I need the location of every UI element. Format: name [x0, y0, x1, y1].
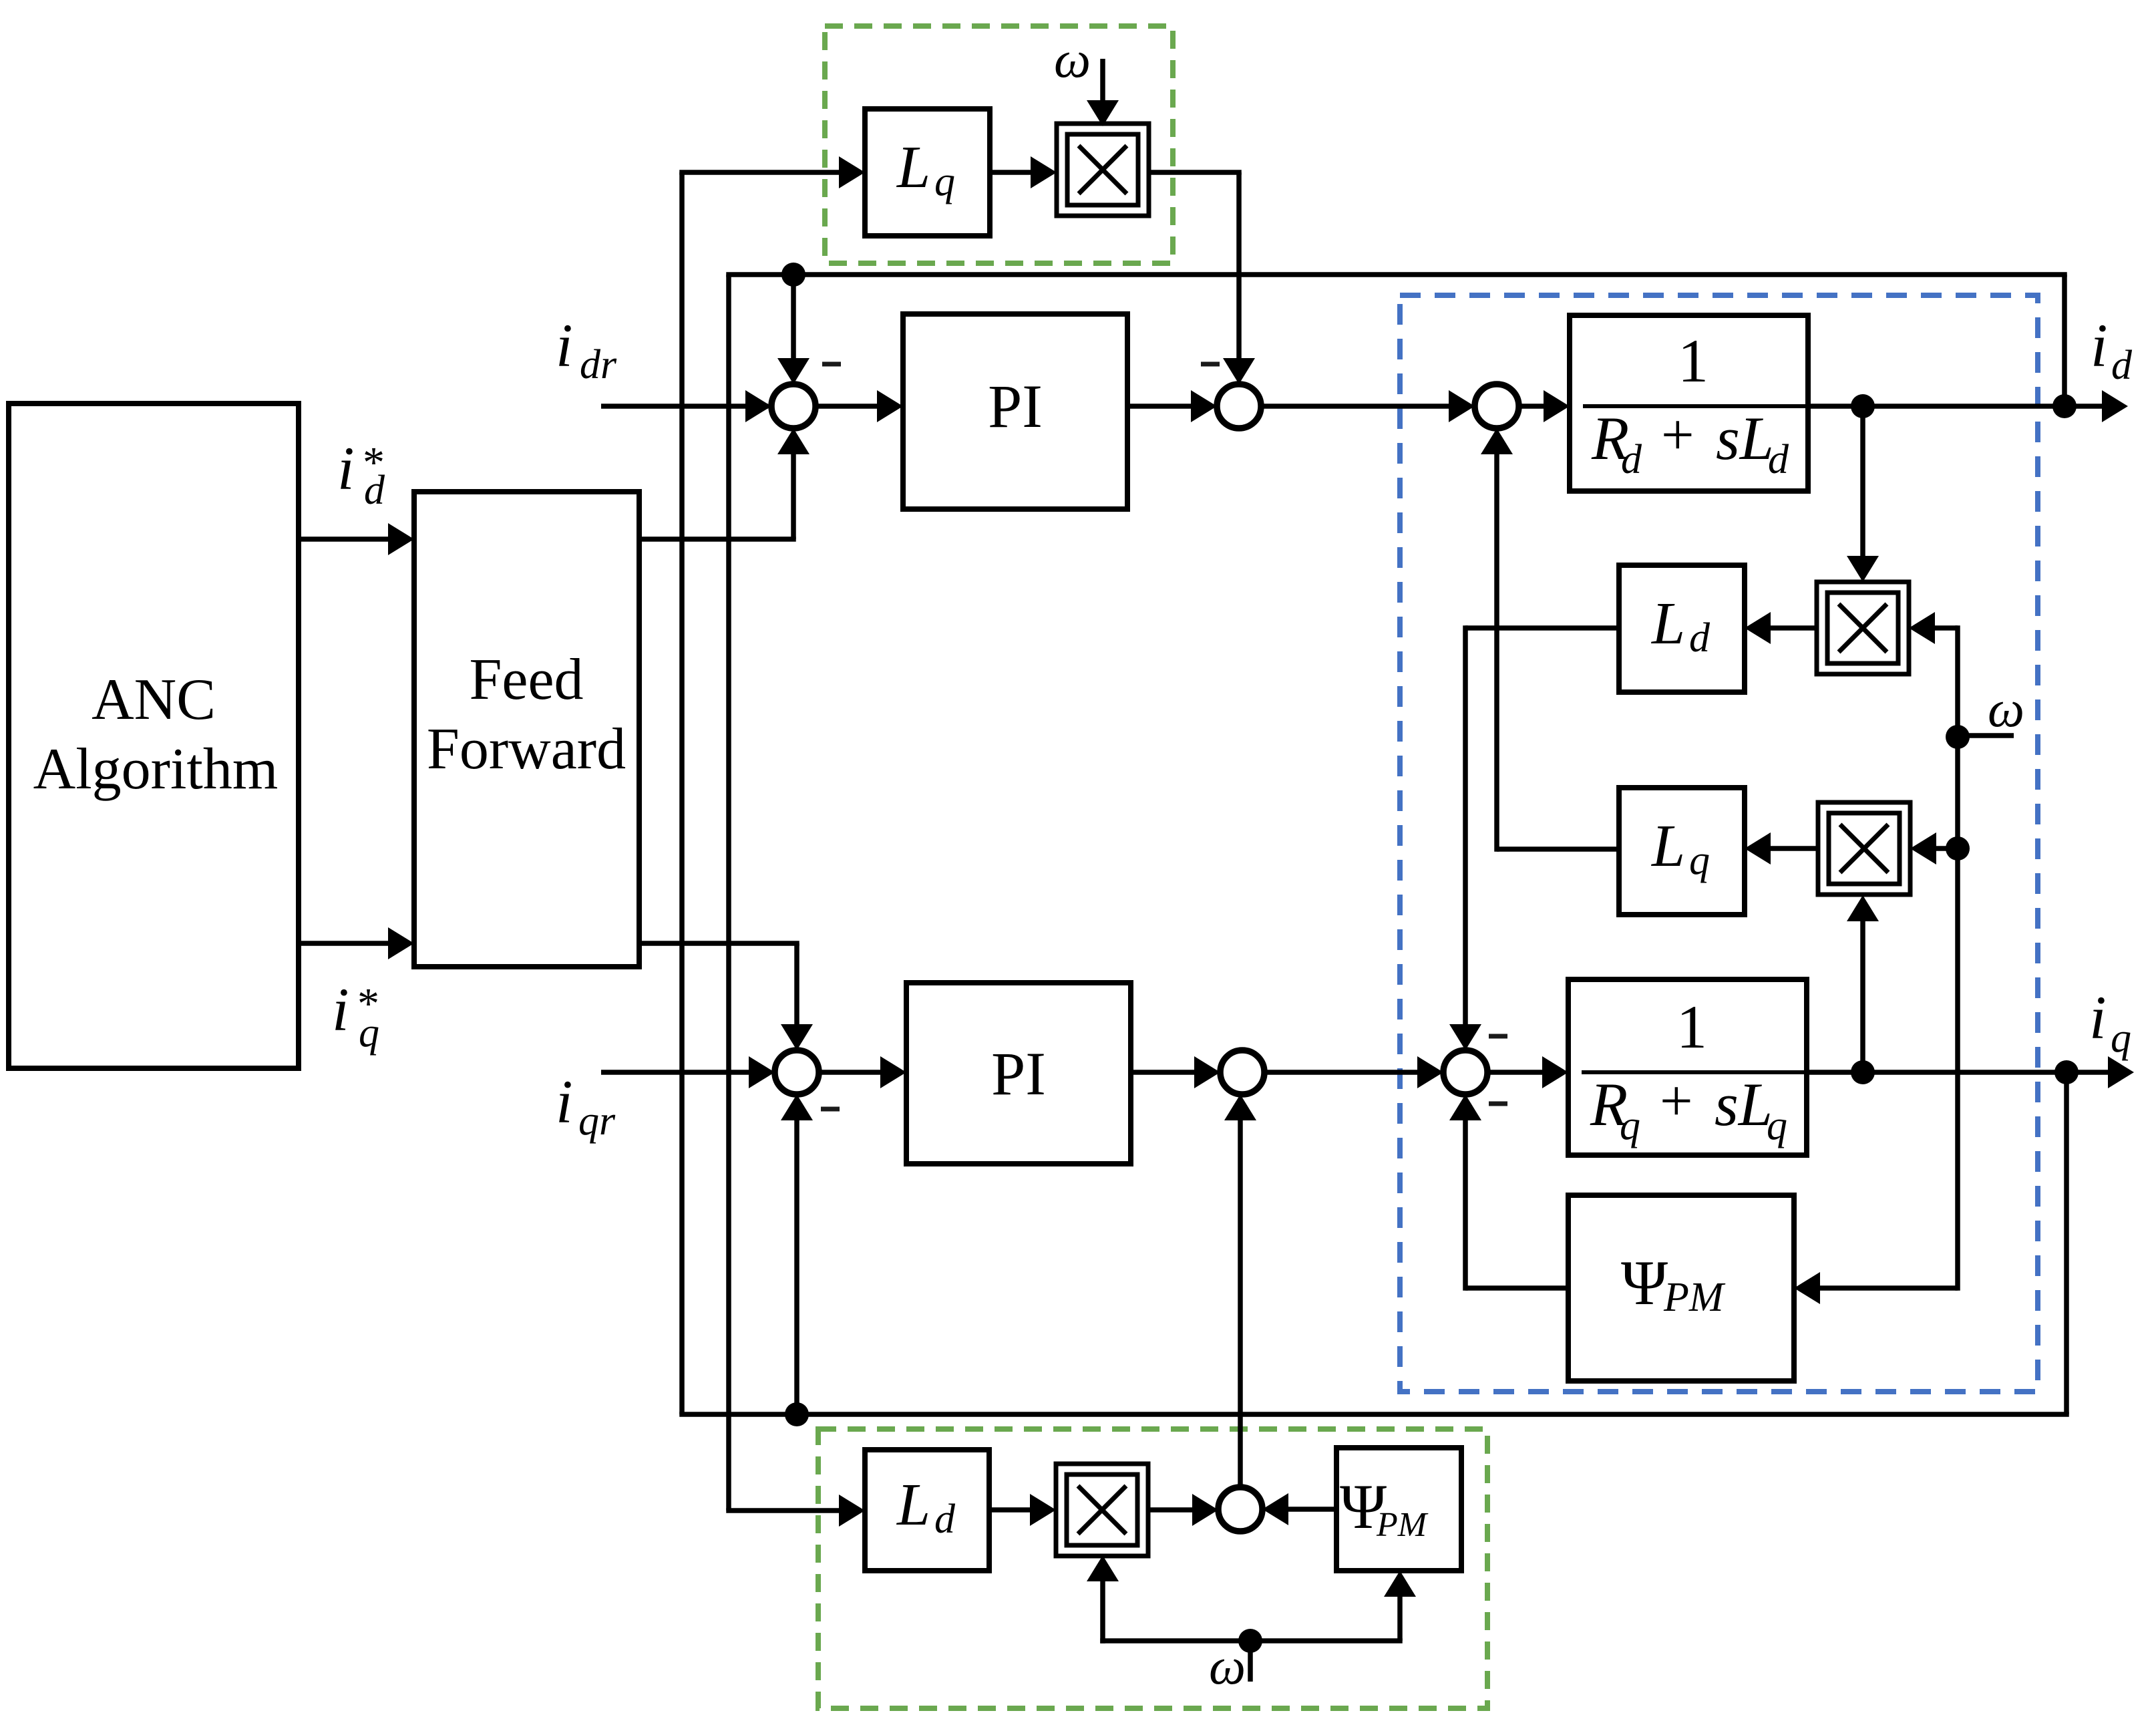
- wire N5 up into sum S4 (-): [781, 1094, 813, 1414]
- svg-text:+: +: [1661, 403, 1694, 468]
- wire i_q feedback loop (down, left, up into Lq feed-forward): [679, 156, 2069, 1414]
- wire sum S1 to PI d: [816, 390, 903, 422]
- label 1/(Rd+sLd): [1583, 327, 1806, 482]
- svg-text:Feed: Feed: [469, 647, 583, 712]
- wire omega into Psi_PM motor: [1794, 1272, 1958, 1304]
- label Psi_PM motor: [1621, 1247, 1726, 1320]
- wire Psi_PM motor feedback to sum S6 (-): [1449, 1094, 1568, 1291]
- svg-text:ANC: ANC: [92, 667, 216, 732]
- sum junction S6 (q model input): [1443, 1050, 1487, 1094]
- label i_q*: [332, 975, 379, 1056]
- wire Feed Forward output up into sum S1 (+): [639, 428, 810, 539]
- minus sign at S6 bottom entry: [1489, 1102, 1507, 1106]
- svg-text:L: L: [1650, 591, 1685, 657]
- label Ld motor: [1650, 591, 1711, 661]
- block Feed Forward: [414, 492, 639, 967]
- block PI d-axis: [903, 314, 1127, 509]
- svg-text:sL: sL: [1715, 1070, 1773, 1138]
- label Feed Forward: [427, 647, 626, 782]
- wire Psi_PM feed-forward to sum S7: [1262, 1493, 1336, 1525]
- label PI q-axis: [991, 1040, 1046, 1108]
- svg-text:i: i: [556, 311, 573, 379]
- node i_d feedback branch N6: [781, 263, 805, 287]
- svg-text:q: q: [1689, 838, 1710, 883]
- wire ANC to Feed Forward (i_q*): [299, 927, 414, 959]
- node i_d output N2: [2052, 394, 2077, 418]
- svg-text:dr: dr: [580, 342, 617, 387]
- block Lq motor: [1619, 788, 1745, 915]
- block 1/(Rd+sLd): [1570, 315, 1808, 491]
- minus sign at S2 top entry: [1201, 362, 1220, 367]
- svg-text:qr: qr: [578, 1098, 616, 1144]
- wire omega into multiplier M1: [1087, 59, 1119, 126]
- wire N3 up into multiplier M3: [1847, 895, 1879, 1072]
- label i_d*: [337, 434, 385, 513]
- svg-text:ω: ω: [1988, 679, 2024, 738]
- feed-forward d-axis group (green dashed box): [825, 26, 1173, 263]
- svg-text:q: q: [359, 1010, 379, 1056]
- svg-text:i: i: [2089, 983, 2107, 1052]
- label ANC Algorithm: [33, 667, 279, 802]
- svg-text:sL: sL: [1716, 404, 1774, 472]
- svg-text:i: i: [332, 975, 349, 1044]
- svg-text:d: d: [364, 468, 385, 513]
- wire Ld feed-forward to multiplier M4: [989, 1494, 1056, 1526]
- block Lq feed-forward: [865, 109, 990, 236]
- wire omega stub (bottom green group): [1248, 1641, 1253, 1682]
- svg-text:Ψ: Ψ: [1621, 1247, 1668, 1318]
- svg-text:PI: PI: [991, 1040, 1046, 1108]
- svg-text:L: L: [896, 134, 930, 200]
- label PI d-axis: [988, 372, 1043, 440]
- svg-text:+: +: [1660, 1069, 1693, 1134]
- wire N6 down into sum S1 (-): [777, 275, 810, 384]
- wire sum S7 up into sum S5 (+): [1224, 1094, 1256, 1487]
- feed-forward q-axis group (green dashed box): [818, 1429, 1487, 1708]
- wire omega into multiplier M3: [1910, 832, 1958, 865]
- node omega tap N-omega1: [1946, 725, 1970, 749]
- svg-text:i: i: [2091, 311, 2108, 379]
- label 1/(Rq+sLq): [1582, 993, 1805, 1148]
- svg-text:i: i: [337, 434, 355, 502]
- label Psi_PM feed-forward: [1340, 1471, 1429, 1544]
- wire multiplier M1 output down into sum S2 (-): [1149, 172, 1255, 384]
- svg-text:L: L: [1650, 813, 1685, 879]
- label Lq feed-forward: [896, 134, 955, 204]
- node d-current branch N1: [1851, 394, 1875, 418]
- wire sum S3 to 1/(Rd+sLd): [1519, 390, 1570, 422]
- wire 1/(Rq+sLq) output to i_q: [1807, 1056, 2134, 1088]
- block PI q-axis: [906, 983, 1131, 1164]
- label Lq motor: [1650, 813, 1710, 883]
- wire N1 down into multiplier M2: [1847, 406, 1879, 582]
- sum junction S2 (d decouple): [1217, 384, 1261, 428]
- sum junction S4 (q error): [775, 1050, 819, 1094]
- block Ld feed-forward: [865, 1450, 989, 1571]
- label i_dr: [556, 311, 617, 387]
- wire i_dr input into sum S1: [601, 390, 771, 422]
- wire multiplier M3 to Lq motor: [1745, 832, 1818, 865]
- wire multiplier M4 to sum S7: [1148, 1494, 1218, 1526]
- wire Feed Forward output down into sum S4 (+): [639, 943, 813, 1050]
- node omega tap N-omega2: [1946, 836, 1970, 860]
- node i_q feedback branch N5: [785, 1402, 809, 1426]
- wire PI q to sum S5: [1131, 1056, 1220, 1088]
- label omega (motor model): [1958, 679, 2024, 738]
- svg-text:PM: PM: [1663, 1275, 1726, 1320]
- node q-current branch N3: [1851, 1060, 1875, 1084]
- wire i_d feedback loop (up, left, down into Ld feed-forward): [726, 275, 2067, 1527]
- block Ld motor: [1619, 565, 1745, 692]
- svg-text:d: d: [1621, 437, 1642, 482]
- minus sign at S6 top entry: [1489, 1034, 1507, 1039]
- label i_qr: [556, 1068, 616, 1144]
- minus sign at S1 top entry: [822, 362, 841, 367]
- motor model group (blue dashed box): [1400, 295, 2038, 1392]
- multiplier M1 (omega x Lq iq): [1057, 124, 1149, 216]
- minus sign at S4 bottom entry: [821, 1107, 840, 1112]
- svg-text:q: q: [1767, 1103, 1787, 1148]
- wire sum S6 to 1/(Rq+sLq): [1487, 1056, 1568, 1088]
- svg-text:Algorithm: Algorithm: [33, 737, 279, 802]
- wire Ld motor feedback to sum S6 (-): [1449, 625, 1619, 1050]
- sum junction S5 (q decouple): [1220, 1050, 1264, 1094]
- wire omega distribution (bottom green group): [1087, 1555, 1416, 1644]
- multiplier M2 (omega x id): [1817, 582, 1909, 674]
- wire multiplier M2 to Ld motor: [1745, 612, 1817, 644]
- sum junction S3 (d model input): [1475, 384, 1519, 428]
- svg-text:q: q: [934, 159, 955, 204]
- node omega input N-omega3: [1238, 1629, 1262, 1653]
- sum junction S7 (feed-forward sum): [1218, 1487, 1262, 1531]
- svg-text:PI: PI: [988, 372, 1043, 440]
- label omega (bottom green group): [1209, 1637, 1246, 1695]
- wire sum S4 to PI q: [819, 1056, 906, 1088]
- svg-text:Forward: Forward: [427, 717, 626, 782]
- wire PI d to sum S2: [1127, 390, 1217, 422]
- node i_q output N4: [2054, 1060, 2079, 1084]
- wire Lq motor feedback up to sum S3: [1481, 428, 1619, 852]
- wire ANC to Feed Forward (i_d*): [299, 523, 414, 555]
- block 1/(Rq+sLq): [1568, 979, 1807, 1155]
- sum junction S1 (d error): [771, 384, 816, 428]
- label omega (top green group): [1054, 30, 1091, 88]
- svg-text:q: q: [1620, 1103, 1640, 1148]
- multiplier M4 (omega x Ld id): [1056, 1464, 1148, 1556]
- svg-text:d: d: [1689, 615, 1711, 661]
- block ANC Algorithm: [9, 404, 299, 1068]
- svg-text:L: L: [896, 1472, 930, 1538]
- wire omega into multiplier M2: [1909, 612, 1958, 644]
- wire omega column: [1955, 625, 1960, 1291]
- svg-text:1: 1: [1678, 327, 1709, 395]
- svg-text:1: 1: [1676, 993, 1707, 1061]
- wire Lq feed-forward to multiplier M1: [990, 156, 1057, 188]
- svg-text:d: d: [1768, 437, 1789, 482]
- svg-text:q: q: [2111, 1015, 2131, 1061]
- label i_q: [2089, 983, 2131, 1061]
- label i_d: [2091, 311, 2133, 388]
- block Psi_PM feed-forward: [1336, 1448, 1461, 1571]
- svg-text:PM: PM: [1376, 1506, 1429, 1544]
- wire sum S5 to sum S6: [1264, 1056, 1443, 1088]
- block Psi_PM motor: [1568, 1195, 1794, 1381]
- svg-text:ω: ω: [1054, 30, 1091, 88]
- wire sum S2 to sum S3: [1261, 390, 1475, 422]
- wire 1/(Rd+sLd) output to i_d: [1808, 390, 2128, 422]
- svg-text:i: i: [556, 1068, 573, 1136]
- svg-text:d: d: [2111, 343, 2133, 388]
- wire i_qr input into sum S4: [601, 1056, 775, 1088]
- svg-text:ω: ω: [1209, 1637, 1246, 1695]
- svg-text:d: d: [934, 1497, 956, 1542]
- label Ld feed-forward: [896, 1472, 956, 1542]
- multiplier M3 (omega x iq): [1818, 802, 1910, 895]
